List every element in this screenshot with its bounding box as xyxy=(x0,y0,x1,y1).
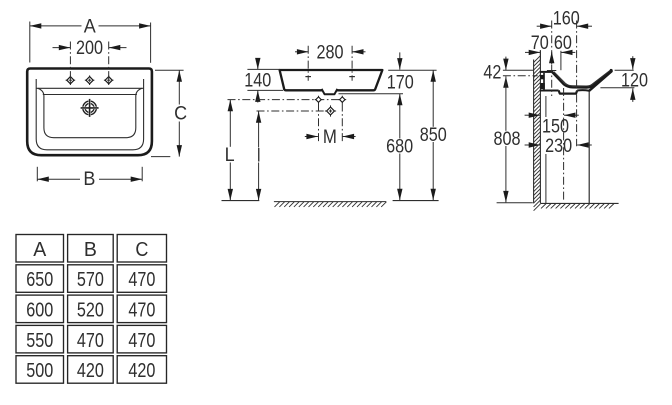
svg-text:550: 550 xyxy=(26,330,53,352)
svg-text:70: 70 xyxy=(531,33,549,54)
fixing hole right centerline vertical xyxy=(341,104,343,144)
ground hatch front view xyxy=(274,201,386,203)
table cell 500 (row 4, col A) xyxy=(16,356,64,384)
fixing hole left centerline vertical xyxy=(318,104,320,144)
table header B xyxy=(68,235,114,263)
left view: faucet hole right xyxy=(104,75,114,85)
side profile: upper fixing lug (section fill) xyxy=(540,75,544,79)
dimension 70 and 60 xyxy=(525,51,540,53)
dimension 42 xyxy=(503,69,534,71)
wall section xyxy=(533,60,535,204)
front view: centerline faucet left xyxy=(307,46,309,81)
svg-text:500: 500 xyxy=(26,360,53,382)
side profile: rim underside xyxy=(589,71,611,90)
svg-text:B: B xyxy=(83,169,95,190)
side profile: tap hole cross on deck xyxy=(547,70,556,72)
table cell 600 (row 2, col A) xyxy=(16,295,64,323)
svg-text:200: 200 xyxy=(76,38,103,59)
drain centerline side view xyxy=(576,21,578,147)
front view: centerline faucet right xyxy=(351,46,353,81)
drain symbol front view xyxy=(325,105,336,116)
side profile: deck top at wall xyxy=(540,71,553,73)
fixing hole right symbol xyxy=(338,96,346,104)
side profile: trap boss xyxy=(559,90,578,93)
dimension 140 xyxy=(247,68,279,70)
dimension 230 xyxy=(525,144,541,146)
front view: basin body xyxy=(280,70,383,90)
left view: centerline right faucet hole xyxy=(108,42,110,86)
tap centerline side view xyxy=(551,21,553,97)
svg-text:680: 680 xyxy=(386,137,413,158)
left view: bowl waterline xyxy=(43,94,137,96)
svg-text:42: 42 xyxy=(483,63,501,84)
drain centerline horizontal xyxy=(257,110,332,112)
table header C xyxy=(117,235,166,263)
table cell 470 (row 1, col C) xyxy=(117,265,166,293)
left view: drain symbol xyxy=(81,99,99,117)
svg-text:520: 520 xyxy=(77,300,104,322)
svg-text:420: 420 xyxy=(128,360,155,382)
svg-text:470: 470 xyxy=(128,269,155,291)
table cell 520 (row 2, col B) xyxy=(68,295,114,323)
dimension C xyxy=(155,69,184,71)
dimension 850 xyxy=(432,70,434,127)
side profile: bowl inner line xyxy=(554,70,610,86)
left view: basin inner rim line xyxy=(36,79,143,150)
dimension 808 xyxy=(505,76,507,131)
fixing holes centerline xyxy=(228,99,345,101)
svg-text:120: 120 xyxy=(621,71,648,92)
dimension 280 xyxy=(295,51,308,53)
svg-text:60: 60 xyxy=(554,33,572,54)
fixing hole left symbol xyxy=(315,96,323,104)
table cell 470 (row 2, col C) xyxy=(117,295,166,323)
side profile: underside to trap xyxy=(540,90,559,92)
dimension A xyxy=(29,22,31,63)
dimension 120 xyxy=(615,69,634,71)
left view: centerline left faucet hole xyxy=(69,42,71,86)
svg-text:C: C xyxy=(174,104,187,125)
side profile: bowl surface xyxy=(552,70,611,87)
svg-text:170: 170 xyxy=(387,73,414,94)
svg-text:140: 140 xyxy=(244,71,271,92)
floor hatch side view xyxy=(541,204,614,209)
pedestal front edge xyxy=(588,91,590,204)
table cell 470 (row 3, col C) xyxy=(117,325,166,353)
table header A xyxy=(16,235,64,263)
svg-text:160: 160 xyxy=(553,9,580,30)
front view: overflow notch tab xyxy=(322,89,338,95)
ground line right segment xyxy=(393,200,439,202)
trap centerline side view xyxy=(563,88,565,202)
svg-text:A: A xyxy=(84,16,96,37)
dimension M xyxy=(305,136,318,138)
left view: bowl outline xyxy=(38,88,142,137)
svg-text:470: 470 xyxy=(128,300,155,322)
svg-text:M: M xyxy=(323,127,337,148)
dimension B xyxy=(36,167,38,182)
dimension 160 xyxy=(537,25,552,27)
svg-text:570: 570 xyxy=(77,269,104,291)
svg-text:L: L xyxy=(225,145,235,166)
table cell 650 (row 1, col A) xyxy=(16,265,64,293)
table cell 550 (row 3, col A) xyxy=(16,325,64,353)
table cell 470 (row 3, col B) xyxy=(68,325,114,353)
ground line left segment xyxy=(222,200,260,202)
side profile: underside right of trap xyxy=(577,89,589,92)
pedestal back edge xyxy=(545,96,547,117)
floor line side view xyxy=(540,202,618,204)
svg-text:420: 420 xyxy=(77,360,104,382)
dimension 170 xyxy=(388,69,436,71)
left view: faucet hole left xyxy=(66,75,76,85)
svg-text:280: 280 xyxy=(317,42,344,63)
dimension 200 xyxy=(53,47,71,49)
fixing centerline horizontal side view xyxy=(503,75,538,77)
table cell 420 (row 4, col C) xyxy=(117,356,166,384)
front view: faucet mark left xyxy=(305,76,311,78)
svg-text:808: 808 xyxy=(494,129,521,150)
table cell 570 (row 1, col B) xyxy=(68,265,114,293)
svg-text:A: A xyxy=(33,239,47,261)
dimension 680 xyxy=(399,94,401,139)
floor extension left of wall xyxy=(497,202,533,204)
dimension 150 xyxy=(525,114,541,116)
left view: faucet hole center xyxy=(85,75,95,85)
svg-text:470: 470 xyxy=(128,330,155,352)
svg-text:230: 230 xyxy=(545,136,572,157)
svg-text:650: 650 xyxy=(26,269,53,291)
svg-text:150: 150 xyxy=(542,116,569,137)
svg-text:B: B xyxy=(84,239,97,261)
side profile: basin back edge xyxy=(543,73,545,90)
dimension L xyxy=(229,100,231,147)
svg-text:850: 850 xyxy=(420,125,447,146)
front view: faucet mark right xyxy=(349,76,355,78)
left view: back ledge line xyxy=(36,87,143,89)
table cell 420 (row 4, col B) xyxy=(68,356,114,384)
svg-text:600: 600 xyxy=(26,300,53,322)
svg-text:C: C xyxy=(135,239,148,261)
svg-text:I: I xyxy=(257,145,261,166)
dimension I xyxy=(258,111,260,147)
svg-text:470: 470 xyxy=(77,330,104,352)
left view: basin outer rim (plan) xyxy=(27,69,152,156)
side profile: lower fixing lug (section fill) xyxy=(540,83,545,89)
